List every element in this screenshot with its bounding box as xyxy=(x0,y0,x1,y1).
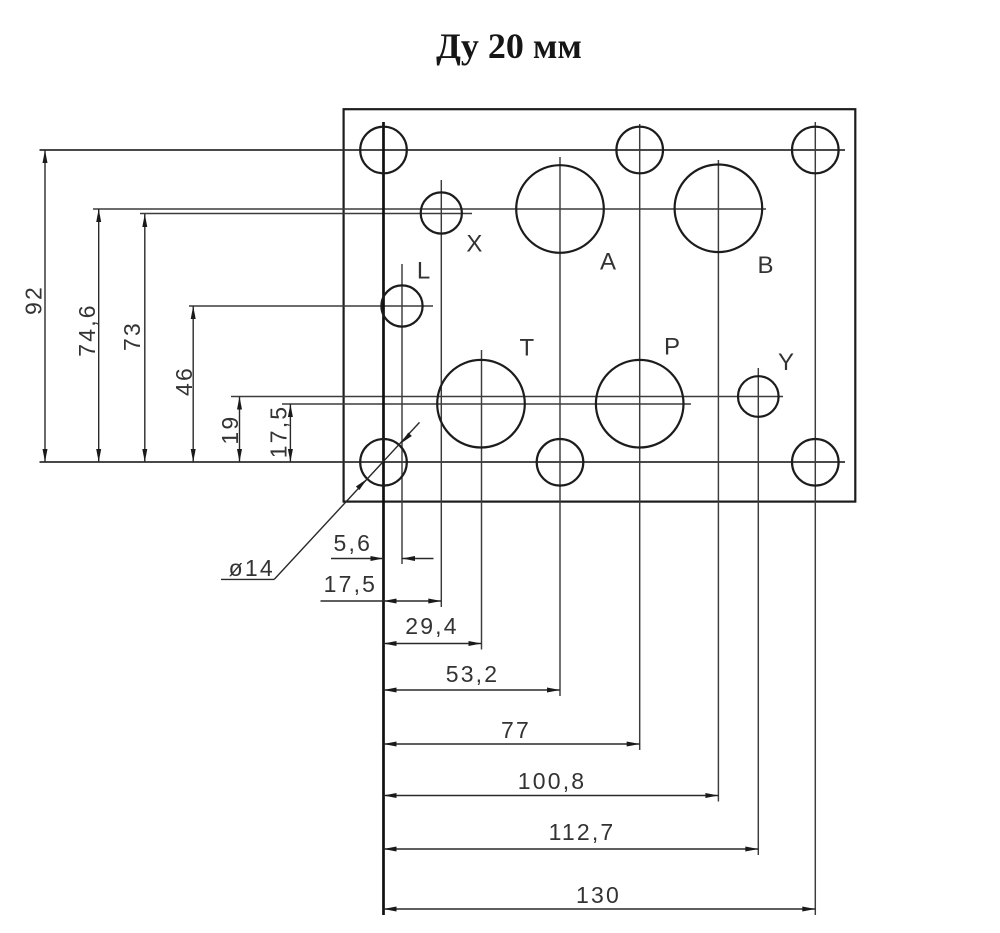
dimension 130 horizontal xyxy=(384,908,816,910)
svg-text:74,6: 74,6 xyxy=(74,303,100,357)
dimension 5,6 horizontal (outside arrows) xyxy=(331,558,384,560)
vertical extension line through right mounting holes xyxy=(814,122,816,915)
leader o14 diagonal xyxy=(274,422,419,579)
svg-text:17,5: 17,5 xyxy=(324,571,378,597)
hole A xyxy=(516,165,604,253)
dimension 73 vertical xyxy=(144,214,146,462)
svg-text:77: 77 xyxy=(501,717,531,743)
vertical extension line through hole L xyxy=(401,264,403,564)
svg-text:5,6: 5,6 xyxy=(334,530,373,556)
dimension 29,4 horizontal xyxy=(384,643,482,645)
svg-text:130: 130 xyxy=(576,882,621,908)
hole bottom-middle xyxy=(537,439,584,486)
hole top-right mounting xyxy=(792,127,839,174)
svg-text:Y: Y xyxy=(778,349,794,376)
svg-text:Ду 20 мм: Ду 20 мм xyxy=(436,26,582,66)
centerline row through hole Y xyxy=(231,396,783,398)
hole top-left mounting xyxy=(360,127,407,174)
dimension 112,7 horizontal xyxy=(384,848,759,850)
svg-text:A: A xyxy=(600,249,616,276)
centerline row through holes T and P xyxy=(282,403,691,405)
vertical extension line through hole Y xyxy=(757,368,759,855)
svg-text:100,8: 100,8 xyxy=(518,768,587,794)
svg-text:112,7: 112,7 xyxy=(549,819,616,845)
leader arrow upper-right at hole rim xyxy=(401,433,412,444)
hole L xyxy=(381,285,422,326)
centerline row through hole X xyxy=(140,213,472,215)
dimension 92 vertical xyxy=(44,150,46,462)
svg-text:ø14: ø14 xyxy=(229,555,275,581)
svg-text:92: 92 xyxy=(21,285,47,315)
hole Y xyxy=(738,376,779,417)
vertical extension line through hole T xyxy=(481,350,483,650)
svg-text:B: B xyxy=(757,252,773,279)
hole P xyxy=(596,360,684,448)
dimension 100,8 horizontal xyxy=(384,795,719,797)
svg-text:X: X xyxy=(466,231,482,258)
vertical extension line through hole B xyxy=(717,160,719,802)
dimension 17,5 vertical xyxy=(289,404,291,462)
svg-text:T: T xyxy=(519,335,534,362)
dimension 53,2 horizontal xyxy=(384,689,561,691)
dimension 17,5 horizontal xyxy=(321,600,442,602)
svg-text:19: 19 xyxy=(217,415,243,445)
centerline row through top mounting holes xyxy=(40,149,846,151)
svg-text:73: 73 xyxy=(119,321,145,351)
dimension 74,6 vertical xyxy=(98,209,100,462)
dimension 19 vertical xyxy=(239,397,241,463)
leader o14 underline xyxy=(221,578,274,580)
centerline row through bottom mounting holes xyxy=(40,461,846,463)
svg-text:53,2: 53,2 xyxy=(446,661,500,687)
vertical extension line through hole X xyxy=(440,180,442,607)
svg-text:P: P xyxy=(664,334,680,361)
centerline row through holes A and B xyxy=(93,208,766,210)
vertical extension line through holes A and bottom-middle xyxy=(559,157,561,696)
svg-text:L: L xyxy=(417,258,430,285)
leader arrow lower-left at hole rim xyxy=(356,479,367,490)
hole X xyxy=(421,192,462,233)
svg-text:17,5: 17,5 xyxy=(266,405,292,459)
hole bottom-right mounting xyxy=(792,439,839,486)
dimension 77 horizontal xyxy=(384,743,640,745)
dimension 46 vertical xyxy=(192,306,194,462)
hole bottom-left mounting xyxy=(360,439,407,486)
svg-text:29,4: 29,4 xyxy=(405,613,459,639)
centerline row through hole L xyxy=(189,305,433,307)
hole B xyxy=(675,165,763,253)
vertical extension line through top-middle hole and hole P xyxy=(639,124,641,750)
thick vertical reference line through left mounting holes xyxy=(382,122,385,915)
hole top-middle xyxy=(616,127,663,174)
hole T xyxy=(437,360,525,448)
svg-text:46: 46 xyxy=(171,366,197,396)
plate outline rectangle xyxy=(344,109,856,501)
